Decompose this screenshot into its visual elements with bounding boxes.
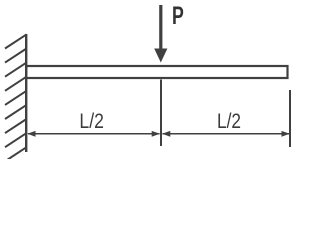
wall hatch 3 bbox=[5, 63, 27, 77]
wall hatch 5 bbox=[5, 91, 27, 105]
load arrowhead bbox=[154, 49, 167, 63]
svg-text:P: P bbox=[172, 2, 184, 30]
dim arrowhead left of right span bbox=[162, 131, 170, 137]
wall hatch 6 bbox=[5, 105, 27, 119]
mid-span extension line bbox=[160, 80, 162, 147]
wall hatch 1 bbox=[5, 34, 27, 48]
wall hatch 7 bbox=[5, 119, 27, 133]
svg-text:L/2: L/2 bbox=[217, 110, 241, 133]
fixed support wall line bbox=[25, 34, 27, 152]
wall hatch 8 bbox=[5, 133, 27, 147]
load arrow shaft bbox=[159, 5, 162, 50]
left dimension line bbox=[28, 133, 160, 135]
dim arrowhead right of left span bbox=[152, 131, 160, 137]
wall hatch 2 bbox=[5, 49, 27, 63]
dim arrowhead right at beam end bbox=[282, 131, 290, 137]
dim arrowhead left at wall bbox=[27, 131, 35, 137]
wall hatch 4 bbox=[5, 77, 27, 91]
right dimension line bbox=[163, 133, 290, 135]
right end extension line bbox=[289, 90, 291, 147]
svg-text:L/2: L/2 bbox=[79, 110, 104, 133]
wall hatch 9 bbox=[8, 147, 27, 159]
beam outline bbox=[26, 66, 287, 78]
